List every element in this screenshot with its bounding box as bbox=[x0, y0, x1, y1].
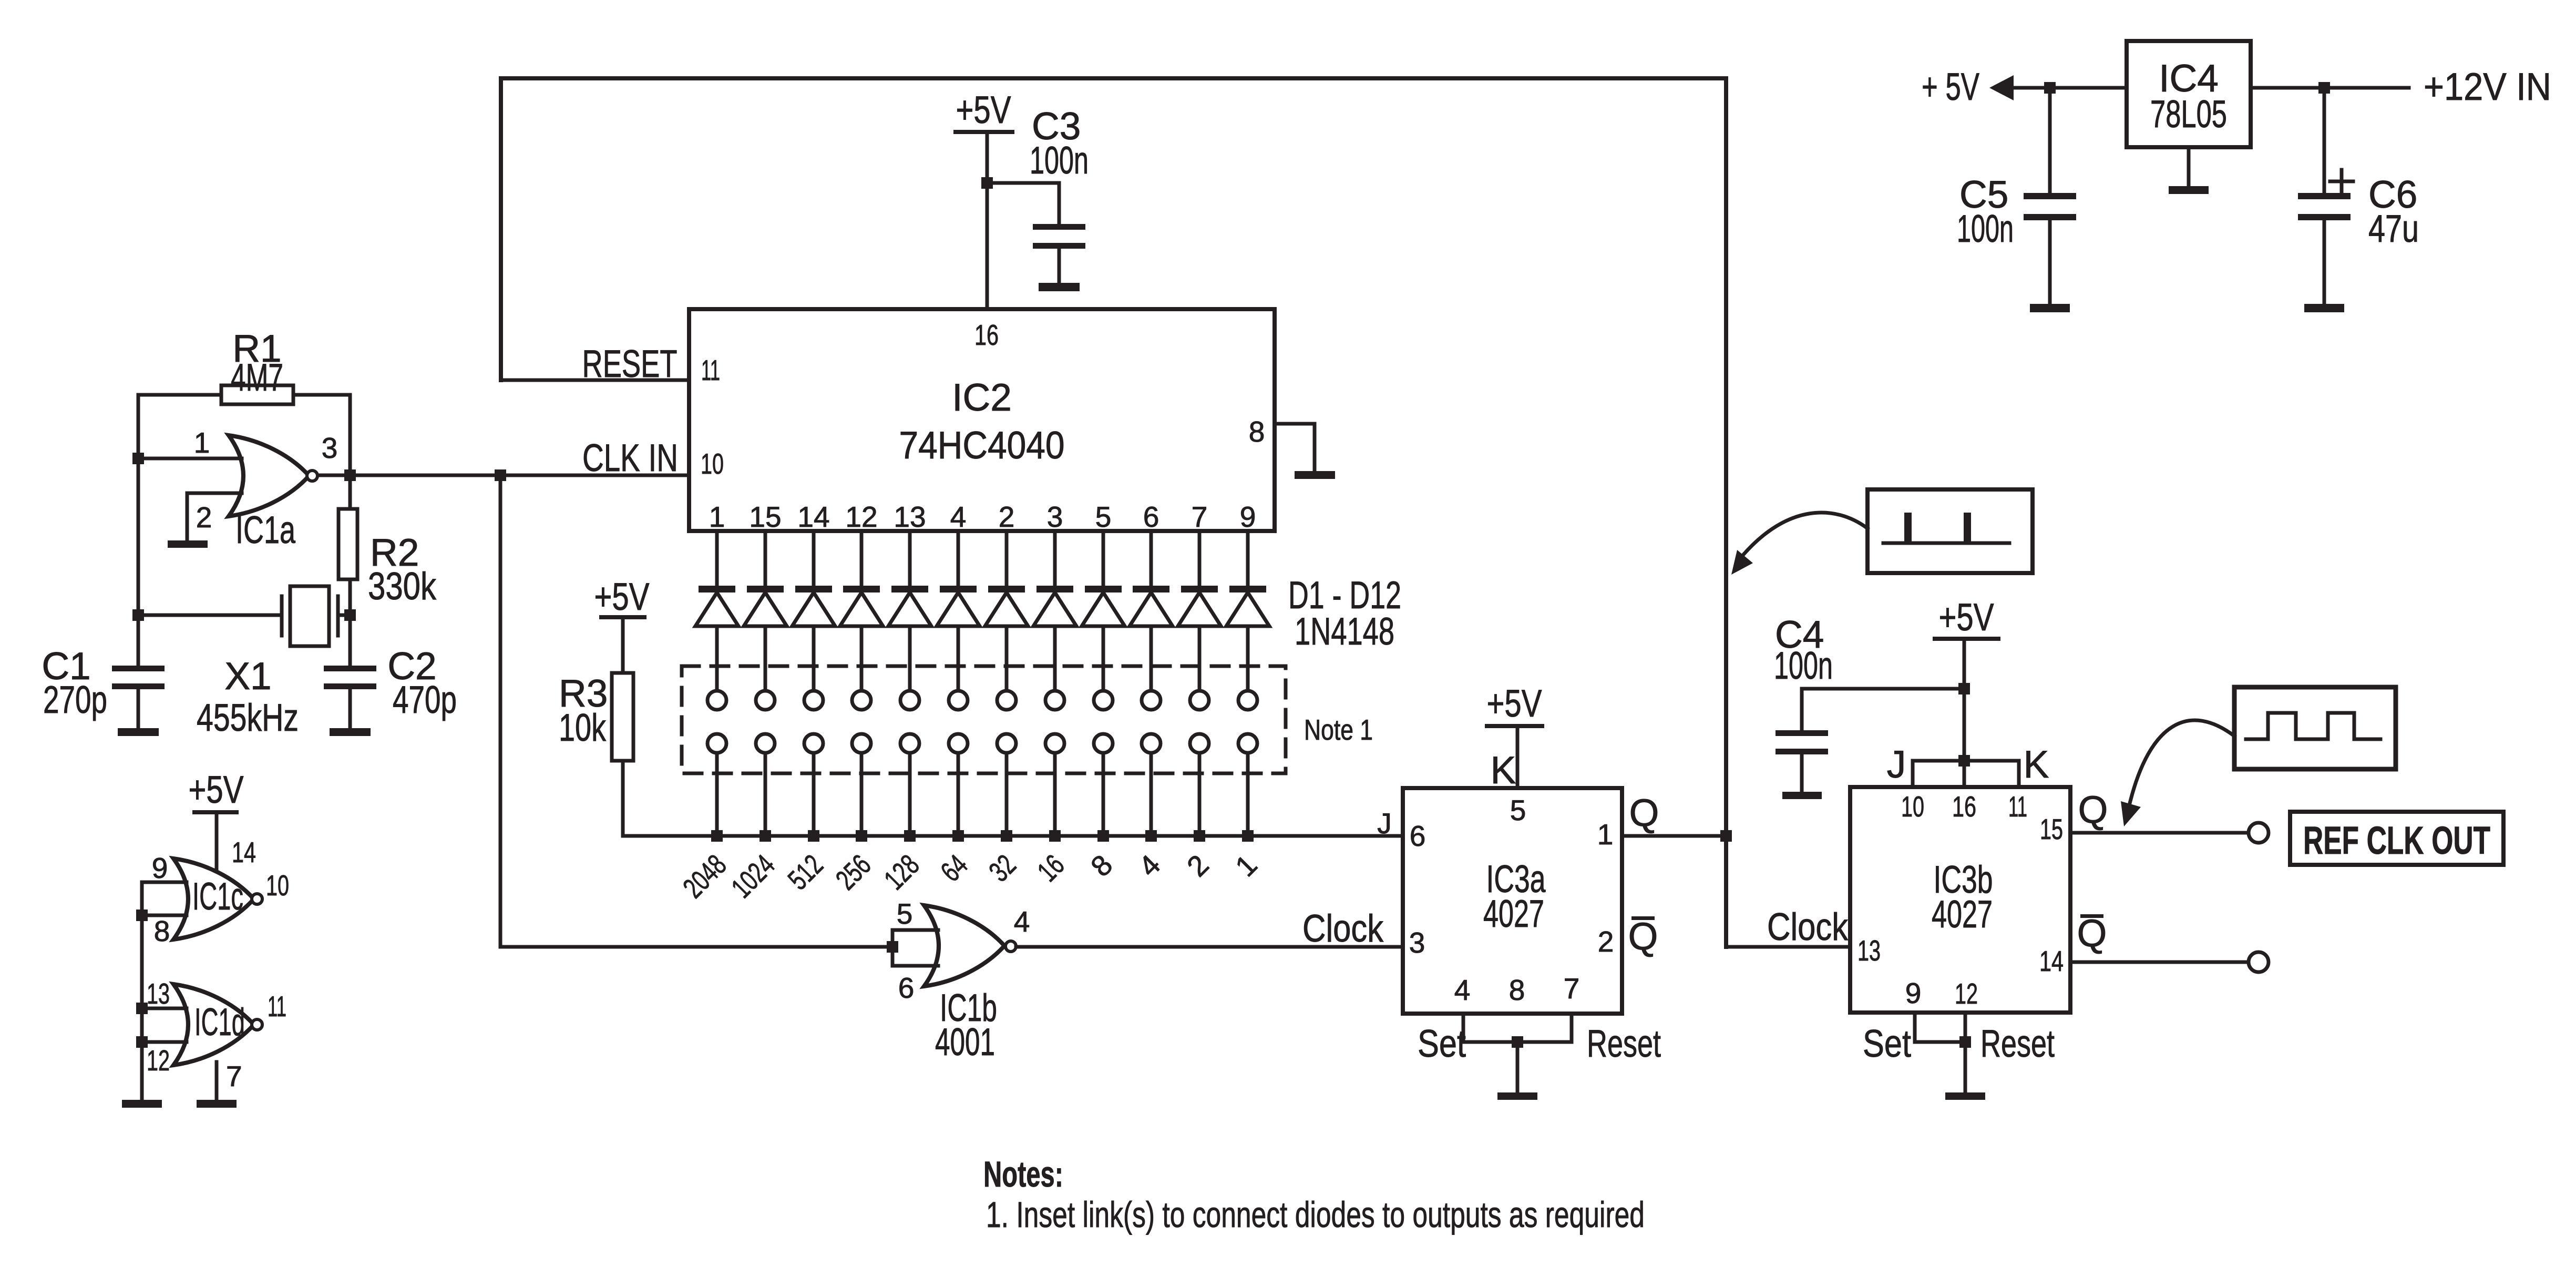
svg-text:5: 5 bbox=[1095, 500, 1112, 533]
svg-text:9: 9 bbox=[152, 852, 168, 884]
node junction pin13 bbox=[136, 1003, 148, 1014]
svg-text:10: 10 bbox=[701, 447, 724, 480]
node junction C3 tap bbox=[981, 177, 993, 189]
node junction IC3a reset bbox=[1512, 1036, 1523, 1048]
label REF CLK OUT box bbox=[2290, 812, 2503, 865]
ground IC1d pin7 bbox=[197, 1100, 237, 1108]
node junction C5 bbox=[2044, 82, 2056, 94]
node junction pin12 bbox=[136, 1036, 148, 1048]
node bus junction 6 bbox=[952, 830, 964, 842]
svg-text:RESET: RESET bbox=[582, 343, 678, 385]
svg-text:5: 5 bbox=[1510, 794, 1526, 826]
wire right vertical R1 to R2 bbox=[348, 395, 352, 509]
svg-text:11: 11 bbox=[2008, 790, 2027, 823]
wire IC1b input bracket bbox=[891, 930, 895, 966]
ground C3 bbox=[1039, 283, 1080, 291]
node C6 plus sign bbox=[2330, 180, 2353, 183]
svg-text:4001: 4001 bbox=[935, 1021, 995, 1064]
node bus junction 5 bbox=[904, 830, 916, 842]
node bus junction 2 bbox=[760, 830, 771, 842]
flip-flop IC3b body bbox=[1850, 787, 2070, 1013]
svg-text:9: 9 bbox=[1905, 977, 1922, 1009]
node terminal Qbar out bbox=[2249, 952, 2269, 972]
capacitor C5 100n bbox=[2048, 88, 2052, 193]
power +5V IC2 bbox=[953, 130, 1014, 134]
wire left feedback vertical bbox=[137, 395, 140, 669]
wire IC1d pin 7 ground bbox=[215, 1062, 219, 1100]
svg-text:470p: 470p bbox=[393, 679, 457, 721]
node link circles column 9 bbox=[1094, 691, 1113, 710]
wire arrow callout 2 bbox=[2130, 720, 2234, 803]
power +5V R3 bbox=[599, 615, 646, 619]
pin 2 wire IC1a bbox=[187, 492, 242, 495]
node bus junction 3 bbox=[808, 830, 819, 842]
svg-text:47u: 47u bbox=[2368, 208, 2419, 250]
diode D9 bbox=[1102, 531, 1105, 587]
svg-text:74HC4040: 74HC4040 bbox=[899, 424, 1065, 467]
ground IC1a pin2 bbox=[168, 540, 208, 548]
ground IC3a bbox=[1497, 1092, 1537, 1100]
svg-text:+5V: +5V bbox=[189, 769, 244, 811]
node link circles column 12 bbox=[1238, 691, 1257, 710]
ground C1 bbox=[118, 728, 159, 736]
resistor R2 330k bbox=[338, 509, 357, 579]
node arrow +5V bbox=[1989, 75, 2014, 100]
svg-text:CLK IN: CLK IN bbox=[582, 437, 678, 479]
resistor R3 10k bbox=[612, 673, 633, 761]
svg-text:11: 11 bbox=[701, 354, 720, 386]
node IC1b output bubble bbox=[1005, 941, 1016, 952]
svg-text:7: 7 bbox=[226, 1060, 242, 1092]
svg-text:78L05: 78L05 bbox=[2150, 93, 2227, 136]
diode D5 bbox=[908, 531, 912, 587]
resistor R1 (4M7) bbox=[221, 385, 293, 404]
svg-text:6: 6 bbox=[898, 972, 915, 1004]
flip-flop IC3a body bbox=[1403, 788, 1622, 1014]
svg-text:4027: 4027 bbox=[1932, 893, 1993, 936]
svg-text:Set: Set bbox=[1863, 1023, 1911, 1065]
node junction IC3a Q to vertical bbox=[1720, 830, 1732, 842]
svg-text:2: 2 bbox=[999, 500, 1015, 533]
wire spare-input chain bbox=[140, 882, 144, 1100]
node bus junction 8 bbox=[1049, 830, 1061, 842]
wire main vertical feedback line (IC3a Q / IC2 reset / IC3b clock) bbox=[1724, 78, 1728, 947]
diode D2 bbox=[764, 531, 767, 587]
ground C2 bbox=[330, 728, 371, 736]
node link circles column 1 bbox=[707, 691, 726, 710]
svg-text:+12V IN: +12V IN bbox=[2424, 66, 2551, 108]
svg-text:+5V: +5V bbox=[956, 89, 1011, 131]
wire into IC3b clock pin 13 bbox=[1726, 945, 1850, 949]
diode D12 bbox=[1246, 531, 1250, 587]
svg-text:3: 3 bbox=[1409, 926, 1425, 959]
ground IC3b bbox=[1945, 1092, 1985, 1100]
node bus junction 12 bbox=[1242, 830, 1254, 842]
diode D3 bbox=[812, 531, 816, 587]
svg-text:15: 15 bbox=[749, 500, 781, 533]
ground IC2 pin8 bbox=[1295, 471, 1335, 479]
svg-text:16: 16 bbox=[974, 319, 999, 351]
node junction pin1 tee bbox=[132, 453, 144, 464]
svg-text:Clock: Clock bbox=[1302, 907, 1383, 950]
diode D8 bbox=[1053, 531, 1057, 587]
svg-text:+5V: +5V bbox=[1487, 682, 1542, 725]
capacitor C2 470p bbox=[324, 666, 376, 671]
node junction X1 right bbox=[344, 609, 356, 621]
svg-text:K: K bbox=[1491, 749, 1516, 792]
svg-text:12: 12 bbox=[845, 500, 877, 533]
svg-text:Q: Q bbox=[2077, 912, 2107, 955]
svg-text:3: 3 bbox=[1047, 500, 1063, 533]
svg-text:455kHz: 455kHz bbox=[197, 697, 299, 739]
node link circles column 7 bbox=[997, 691, 1016, 710]
wire J-K bracket IC3b bbox=[1913, 759, 2019, 763]
svg-text:Q: Q bbox=[1628, 915, 1658, 958]
node junction C6 bbox=[2318, 82, 2330, 94]
pin 9 wire bbox=[142, 881, 187, 884]
capacitor C3 100n bbox=[987, 181, 1059, 185]
svg-text:Q: Q bbox=[2078, 789, 2108, 831]
wire +5V rail bbox=[2014, 86, 2127, 90]
node link circles column 8 bbox=[1045, 691, 1064, 710]
op-amp IC1b NOR gate bbox=[924, 905, 1004, 986]
svg-text:10: 10 bbox=[1901, 790, 1924, 823]
diode D10 bbox=[1150, 531, 1153, 587]
diode D4 bbox=[860, 531, 864, 587]
ground C6 bbox=[2304, 304, 2344, 312]
node link circles column 2 bbox=[756, 691, 775, 710]
svg-text:+ 5V: + 5V bbox=[1922, 66, 1979, 108]
op-amp IC1a NOR gate bbox=[229, 435, 309, 516]
capacitor C6 47u bbox=[2323, 88, 2326, 193]
svg-text:1. Inset link(s) to connect di: 1. Inset link(s) to connect diodes to ou… bbox=[986, 1194, 1645, 1235]
wire arrow callout 1 bbox=[1743, 513, 1867, 555]
svg-text:13: 13 bbox=[894, 500, 926, 533]
pin 8 wire bbox=[142, 914, 187, 917]
svg-text:13: 13 bbox=[1857, 934, 1881, 967]
svg-text:11: 11 bbox=[268, 990, 286, 1023]
ground C5 bbox=[2030, 304, 2070, 312]
diode D7 bbox=[1005, 531, 1009, 587]
svg-text:+5V: +5V bbox=[594, 576, 650, 618]
svg-text:100n: 100n bbox=[1957, 208, 2014, 250]
svg-text:K: K bbox=[2024, 743, 2049, 786]
wire CLK IN net from IC1a output to IC2 pin 10 bbox=[317, 474, 689, 477]
svg-text:1N4148: 1N4148 bbox=[1295, 610, 1394, 653]
svg-text:Set: Set bbox=[1418, 1023, 1466, 1065]
IC2 74HC4040 body bbox=[689, 309, 1275, 531]
power +5V IC3b bbox=[1933, 637, 2000, 641]
svg-text:5: 5 bbox=[897, 897, 913, 930]
svg-text:3: 3 bbox=[322, 432, 338, 464]
svg-text:IC1d: IC1d bbox=[194, 1001, 245, 1044]
svg-text:7: 7 bbox=[1564, 972, 1580, 1005]
svg-text:14: 14 bbox=[797, 500, 829, 533]
node junction IC3b reset bbox=[1959, 1036, 1971, 1048]
svg-text:4: 4 bbox=[950, 500, 967, 533]
svg-text:4027: 4027 bbox=[1483, 893, 1544, 935]
svg-text:4: 4 bbox=[1014, 905, 1030, 938]
capacitor C1 270p bbox=[112, 666, 165, 671]
wire IC4 ground bbox=[2187, 147, 2191, 186]
svg-text:14: 14 bbox=[232, 836, 256, 869]
node link circles column 5 bbox=[900, 691, 919, 710]
svg-text:IC2: IC2 bbox=[952, 376, 1012, 419]
node bus junction 9 bbox=[1097, 830, 1109, 842]
crystal X1 455kHz bbox=[138, 614, 280, 617]
svg-text:6: 6 bbox=[1410, 820, 1426, 852]
svg-text:+5V: +5V bbox=[1939, 596, 1994, 639]
svg-text:Reset: Reset bbox=[1587, 1023, 1661, 1065]
svg-text:12: 12 bbox=[147, 1044, 170, 1077]
waveform pulse box (IC3a clock) bbox=[1867, 489, 2033, 573]
svg-text:14: 14 bbox=[2039, 945, 2064, 977]
svg-text:IC1a: IC1a bbox=[235, 509, 295, 551]
svg-text:12: 12 bbox=[1955, 977, 1978, 1010]
wire IC3b Qbar out bbox=[2070, 961, 2249, 964]
diode D1 bbox=[715, 531, 719, 587]
node bus junction 4 bbox=[856, 830, 867, 842]
wire IC3b set/reset bracket bbox=[1913, 1013, 1917, 1042]
svg-text:IC1c: IC1c bbox=[192, 875, 243, 918]
svg-text:8: 8 bbox=[154, 915, 170, 947]
node junction pin8 bbox=[136, 910, 148, 921]
node IC1c output bubble bbox=[252, 894, 262, 904]
svg-text:16: 16 bbox=[1952, 790, 1976, 823]
node IC1d output bubble bbox=[252, 1019, 262, 1030]
svg-text:Clock: Clock bbox=[1767, 906, 1848, 948]
svg-text:1: 1 bbox=[1597, 818, 1614, 851]
svg-text:10: 10 bbox=[266, 869, 289, 902]
node terminal Q out bbox=[2249, 823, 2269, 843]
node junction IC1b input bbox=[887, 941, 898, 953]
svg-text:J: J bbox=[1887, 743, 1906, 786]
diode D11 bbox=[1198, 531, 1202, 587]
pin 1 wire IC1a bbox=[138, 457, 242, 461]
power +5V IC3a K bbox=[1485, 724, 1544, 728]
node bus junction 10 bbox=[1145, 830, 1157, 842]
ground C4 bbox=[1782, 792, 1822, 799]
node link circles column 3 bbox=[804, 691, 823, 710]
node junction CLK IN branch down bbox=[495, 469, 506, 481]
svg-text:4: 4 bbox=[1454, 974, 1471, 1006]
svg-text:Q: Q bbox=[1629, 792, 1659, 834]
pin 8 ground net bbox=[1275, 422, 1315, 426]
wire R3 to J bus bbox=[621, 761, 625, 836]
svg-text:8: 8 bbox=[1249, 415, 1265, 448]
svg-text:330k: 330k bbox=[368, 565, 436, 608]
svg-text:270p: 270p bbox=[43, 679, 107, 721]
wire R2 bottom to C2 bbox=[348, 579, 352, 669]
svg-text:4M7: 4M7 bbox=[231, 356, 283, 399]
op-amp IC1d NOR gate bbox=[173, 984, 254, 1065]
pin 13 wire bbox=[142, 1007, 187, 1010]
node bus junction 11 bbox=[1194, 830, 1205, 842]
capacitor C4 100n bbox=[1802, 687, 1964, 691]
wire +12V rail bbox=[2251, 86, 2409, 90]
wire IC3a set/reset bracket bbox=[1462, 1014, 1465, 1042]
pin 12 wire bbox=[142, 1040, 187, 1044]
svg-text:6: 6 bbox=[1143, 500, 1159, 533]
diode D6 bbox=[957, 531, 960, 587]
wire IC3a Q output bbox=[1622, 834, 1726, 838]
svg-text:15: 15 bbox=[2040, 813, 2063, 845]
node bus junction 1 bbox=[711, 830, 723, 842]
wire RESET/top rail from IC2.11 up and across to IC3b clock column bbox=[501, 379, 689, 382]
svg-text:REF CLK OUT: REF CLK OUT bbox=[2303, 819, 2490, 862]
svg-text:Reset: Reset bbox=[1980, 1023, 2055, 1065]
svg-text:10k: 10k bbox=[559, 707, 606, 749]
svg-text:8: 8 bbox=[1509, 974, 1525, 1006]
ground IC4 bbox=[2169, 186, 2209, 194]
node link circles column 10 bbox=[1142, 691, 1161, 710]
node bus junction 7 bbox=[1001, 830, 1012, 842]
svg-text:J: J bbox=[1377, 807, 1392, 840]
node junction C4 tap bbox=[1958, 683, 1970, 694]
node junction JK bracket bbox=[1958, 755, 1970, 767]
wire J bus bbox=[623, 834, 1403, 838]
svg-text:100n: 100n bbox=[1030, 139, 1089, 182]
svg-text:2: 2 bbox=[196, 501, 212, 534]
svg-text:1: 1 bbox=[709, 500, 725, 533]
svg-text:Notes:: Notes: bbox=[983, 1154, 1063, 1194]
waveform square box (REF CLK OUT) bbox=[2234, 687, 2396, 769]
node junction at R2 top / IC1a output bbox=[344, 469, 356, 481]
wire IC1b out to IC3a clock bbox=[1016, 945, 1403, 949]
svg-text:100n: 100n bbox=[1774, 645, 1833, 687]
node link circles column 6 bbox=[949, 691, 968, 710]
node IC1a output bubble bbox=[307, 471, 317, 481]
node link circles column 4 bbox=[852, 691, 871, 710]
dashed link box Note 1 bbox=[682, 666, 1286, 773]
svg-text:Note 1: Note 1 bbox=[1304, 713, 1373, 746]
node junction X1 left bbox=[132, 609, 144, 621]
svg-text:2: 2 bbox=[1598, 925, 1614, 958]
ground spare chain bbox=[122, 1100, 162, 1108]
node link circles column 11 bbox=[1190, 691, 1209, 710]
regulator IC4 78L05 bbox=[2127, 41, 2251, 147]
svg-text:7: 7 bbox=[1192, 500, 1208, 533]
wire vertical down to IC1b bbox=[499, 475, 502, 947]
power +5V IC1c bbox=[192, 810, 239, 814]
op-amp IC1c NOR gate bbox=[173, 859, 254, 939]
svg-text:X1: X1 bbox=[224, 655, 271, 698]
wire across to IC1b inputs bbox=[500, 945, 892, 949]
svg-text:1: 1 bbox=[194, 426, 210, 459]
svg-text:13: 13 bbox=[147, 977, 170, 1010]
wire IC3b Q out bbox=[2070, 831, 2249, 835]
svg-text:9: 9 bbox=[1240, 500, 1256, 533]
